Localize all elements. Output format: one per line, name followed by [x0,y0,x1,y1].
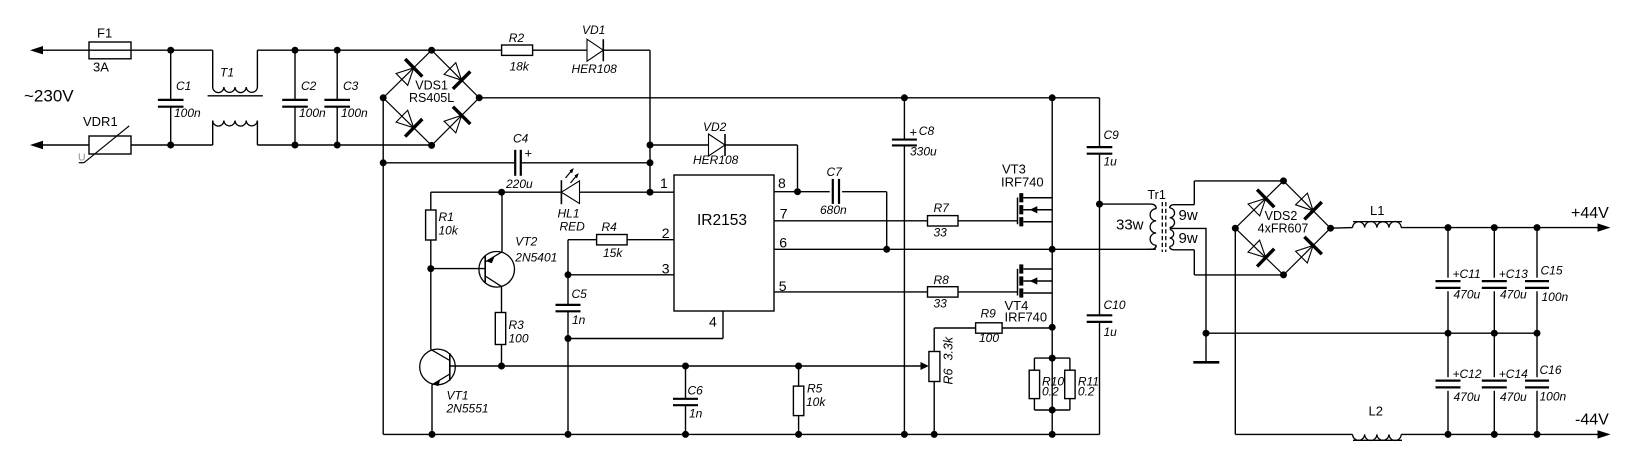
svg-text:100n: 100n [174,106,201,120]
junction C6 top [682,363,689,370]
wire VDS2 to L1 [1331,227,1353,230]
pin 6 label [779,235,787,251]
wire L1 to plus rail [1401,223,1610,231]
junction VT1 emitter ground [429,431,436,438]
resistor R11 [1034,358,1099,410]
transformer Tr1 primary [1100,188,1166,249]
svg-text:C10: C10 [1104,298,1126,312]
wire R8 to VT4 gate [958,291,1018,293]
wire pin 8 stub [774,191,798,193]
junction primary top node [1096,201,1103,208]
choke T1 [208,50,263,145]
svg-text:C1: C1 [176,79,191,93]
wire to VD2 [650,144,709,146]
svg-text:2N5401: 2N5401 [514,251,557,265]
resistor R3 [495,313,529,346]
svg-text:RED: RED [560,220,586,234]
junction C3 bottom [334,142,341,149]
diode VD2 [693,120,739,167]
svg-text:10k: 10k [439,224,459,238]
svg-text:1u: 1u [1104,155,1118,169]
svg-text:R2: R2 [509,31,525,45]
junction VDS1 top vertex [428,47,435,54]
svg-text:R7: R7 [934,201,951,215]
wire F1 to T1 [131,49,213,51]
junction C11 top [1445,224,1452,231]
svg-text:IRF740: IRF740 [1005,310,1048,325]
wire pin 7 [774,220,928,222]
inductor L2 [1353,404,1403,441]
junction pin 3 node [565,271,572,278]
label +44V [1571,205,1609,222]
svg-text:R8: R8 [934,273,950,287]
junction C3 top [334,47,341,54]
capacitor C8 [892,98,937,435]
junction VD2 tap [647,142,654,149]
svg-text:+C13: +C13 [1499,267,1528,281]
svg-text:+: + [910,125,918,140]
wire R4 down to pin 3 [567,240,569,275]
transistor VT3 IRF740 [1001,162,1052,227]
svg-text:100n: 100n [1542,290,1569,304]
svg-text:C5: C5 [572,287,588,301]
wire VT2 collector to R3 [501,287,503,313]
junction pin 8 node [794,188,801,195]
svg-text:33: 33 [934,226,948,240]
capacitor C4 [383,132,650,191]
junction C1 top [167,47,174,54]
capacitor C16 [1525,333,1567,434]
junction VDS1 right vertex [476,94,483,101]
capacitor C3 [324,50,368,145]
svg-text:18k: 18k [510,60,530,74]
svg-text:4xFR607: 4xFR607 [1258,222,1309,236]
capacitor C6 [673,366,703,434]
svg-text:HER108: HER108 [572,62,618,76]
wire R3 to VT1 base rail [501,345,503,367]
svg-text:0.2: 0.2 [1042,385,1059,399]
svg-text:U: U [78,152,86,164]
capacitor C13 [1482,228,1528,334]
svg-text:1: 1 [660,175,668,191]
svg-text:9w: 9w [1179,230,1198,247]
pin 7 label [780,205,788,221]
wire output mid rail [1206,332,1537,334]
svg-text:VD2: VD2 [703,120,727,134]
svg-text:T1: T1 [220,66,234,80]
wire VD2 to pin 8 [725,145,798,192]
svg-text:VT1: VT1 [447,389,469,403]
junction VS at VT3 source [1049,246,1056,253]
LED HL1 [558,168,586,234]
svg-text:C4: C4 [513,132,529,146]
wire T1 to bridge top [257,49,431,51]
junction C12 bottom [1445,431,1452,438]
svg-text:Tr1: Tr1 [1148,188,1166,202]
svg-text:470u: 470u [1500,390,1527,404]
junction C6 bottom [682,431,689,438]
junction shunt bottom [1049,407,1056,414]
svg-text:10k: 10k [806,395,826,409]
svg-text:100n: 100n [299,106,326,120]
svg-text:+44V: +44V [1571,205,1609,222]
wire secondary top to bridge [1194,181,1283,205]
wire plus rail 310V [479,97,1099,99]
svg-text:L2: L2 [1369,404,1383,419]
svg-text:R1: R1 [439,210,454,224]
pin 1 label [660,175,668,191]
potentiometer R6 [929,336,956,384]
resistor R10 [1029,358,1070,410]
junction pin 1 node [647,189,654,196]
svg-text:C8: C8 [919,124,935,138]
wire R9 to R6 [933,328,935,352]
fuse F1 [89,26,131,75]
junction C16 bottom [1534,431,1541,438]
junction R3 bottom [498,363,505,370]
svg-text:1n: 1n [572,313,586,327]
junction C8 ground [901,431,908,438]
capacitor C1 [158,50,201,145]
junction R5 bottom [795,431,802,438]
svg-text:15k: 15k [603,246,623,260]
wire AC line bottom left [30,141,89,149]
svg-text:HER108: HER108 [693,153,739,167]
resistor R7 [928,201,959,240]
wire R7 to VT3 gate [958,220,1018,222]
inductor L1 [1353,203,1403,228]
label ~230V [24,87,74,106]
resistor R8 [928,273,959,311]
wire T1 to bridge bottom [257,144,431,146]
svg-text:470u: 470u [1454,390,1481,404]
wire secondary bottom to bridge [1194,250,1283,275]
wire DC minus vertical [382,98,384,435]
svg-text:RS405L: RS405L [409,91,454,105]
pin 5 label [779,278,787,294]
svg-text:1u: 1u [1104,325,1118,339]
junction VDS1 left vertex [380,94,387,101]
junction shunt ground [1049,431,1056,438]
wire shunt to ground [1051,358,1053,434]
svg-text:3A: 3A [93,60,109,75]
svg-text:680n: 680n [820,203,847,217]
ground [1193,333,1219,362]
junction VDS2 left vertex [1232,225,1239,232]
svg-text:4: 4 [709,314,717,330]
junction C13 top [1491,224,1498,231]
svg-text:VDR1: VDR1 [83,114,118,129]
junction C2 bottom [292,142,299,149]
capacitor C12 [1436,333,1482,434]
wire VT1 base rail [450,362,929,370]
pin 8 label [778,175,786,191]
wire pin 5 [774,291,928,293]
svg-text:1n: 1n [689,407,703,421]
svg-text:470u: 470u [1454,288,1481,302]
svg-text:C7: C7 [827,165,844,179]
svg-text:+C12: +C12 [1453,367,1482,381]
svg-text:F1: F1 [97,26,112,41]
junction VDS2 right vertex [1327,225,1334,232]
wire pin 3 [568,274,674,276]
resistor R1 [426,192,459,240]
junction C7 VS node [883,246,890,253]
wire Vcc to R1 [431,191,562,193]
pin 2 label [662,225,670,241]
svg-text:R5: R5 [807,382,823,396]
svg-text:100n: 100n [341,106,368,120]
wire VT3 drain-source column [1051,98,1053,358]
junction pin 4 node [565,335,572,342]
wire VDS2 minus vertical [1235,228,1352,434]
svg-text:3: 3 [662,260,670,276]
svg-text:3.3k: 3.3k [942,336,956,360]
wire HL1 to pin 1 [580,191,675,193]
wire R6 to ground [933,382,935,435]
svg-text:0.2: 0.2 [1078,385,1095,399]
svg-text:+C11: +C11 [1453,267,1481,281]
svg-text:2: 2 [662,225,670,241]
junction C14 bottom [1491,431,1498,438]
svg-text:9w: 9w [1179,207,1198,224]
svg-text:33: 33 [934,297,948,311]
wire VDR1 to T1 [131,144,213,146]
svg-text:8: 8 [778,175,786,191]
capacitor C15 [1525,228,1569,334]
wire pin 6 VS rail [774,248,1156,250]
wire bridge top to R2 [432,49,502,51]
resistor R5 [793,366,826,434]
svg-text:C6: C6 [688,384,704,398]
junction VT3 drain rail [1049,94,1056,101]
svg-text:C3: C3 [343,79,359,93]
svg-text:C16: C16 [1540,363,1562,377]
op-amp U1 IR2153 driver IC [674,175,774,311]
svg-text:C15: C15 [1541,264,1563,278]
svg-text:100: 100 [979,331,999,345]
junction C13 bottom [1491,330,1498,337]
transformer Tr1 secondary upper 9w [1170,205,1198,228]
capacitor C14 [1482,333,1528,434]
transformer Tr1 core [1162,202,1166,252]
resistor R9 [934,307,1052,346]
svg-text:+: + [525,146,533,161]
junction VDS1 bottom vertex [428,142,435,149]
junction VT2 base node [427,265,434,272]
wire VT1 emitter to ground [431,385,433,435]
pin 4 label [709,314,717,330]
capacitor C5 [556,275,588,435]
svg-text:R4: R4 [602,220,618,234]
diode VD1 [572,23,618,76]
capacitor C10 [1087,204,1126,434]
svg-text:R3: R3 [509,318,525,332]
svg-text:2N5551: 2N5551 [446,402,489,416]
svg-text:IRF740: IRF740 [1001,175,1044,190]
transistor VT1 [420,349,489,415]
wire AC line top left [30,46,89,54]
junction mid rail tap [1203,330,1210,337]
junction C15 top [1534,224,1541,231]
junction VDS2 bottom vertex [1280,271,1287,278]
svg-text:C9: C9 [1104,128,1120,142]
svg-text:470u: 470u [1500,288,1527,302]
junction C1 bottom [167,142,174,149]
svg-text:~230V: ~230V [24,87,74,106]
wire R1 to VT1 collector [430,240,432,349]
transformer Tr1 secondary lower 9w [1170,230,1198,250]
svg-text:IR2153: IR2153 [697,212,747,229]
junction VDS2 top vertex [1280,177,1287,184]
svg-text:+C14: +C14 [1499,367,1528,381]
junction C5 ground [565,431,572,438]
svg-text:R6: R6 [942,368,956,384]
bridge rectifier VDS1 [383,50,479,145]
junction shunt top [1049,355,1056,362]
transistor VT2 [479,235,557,288]
svg-text:220u: 220u [505,177,533,191]
svg-text:L1: L1 [1370,203,1384,218]
junction C4 right [647,159,654,166]
junction C15 bottom [1534,330,1541,337]
wire VT2 base [431,268,485,270]
junction C2 top [292,47,299,54]
capacitor C11 [1436,228,1481,334]
svg-text:VD1: VD1 [582,23,605,37]
junction R6 ground [931,431,938,438]
junction VT4 source R9 node [1049,324,1056,331]
svg-text:100: 100 [509,332,529,346]
capacitor C2 [282,50,326,145]
svg-text:R9: R9 [981,307,997,321]
wire R2 to VD1 [533,49,587,51]
transistor VT4 IRF740 [1005,264,1053,324]
wire pin 4 [568,311,723,339]
pin 3 label [662,260,670,276]
transformer center tap wire [1170,228,1206,333]
resistor R2 [502,31,533,74]
wire C7 to VS [886,192,888,250]
svg-text:330u: 330u [910,145,937,159]
svg-text:C2: C2 [301,79,317,93]
bridge rectifier VDS2 [1235,181,1330,275]
wire VT2 emitter [501,192,503,252]
svg-text:-44V: -44V [1575,412,1609,429]
capacitor C9 [1087,98,1119,204]
svg-text:100n: 100n [1540,390,1567,404]
junction C4 left [380,159,387,166]
svg-text:7: 7 [780,205,788,221]
junction VT2 emitter node [498,189,505,196]
label -44V [1575,412,1609,429]
junction R5 top [795,363,802,370]
capacitor C7 [798,165,887,217]
wire VD1 to Vcc node [603,50,650,192]
svg-text:HL1: HL1 [558,207,580,221]
wire L2 to minus rail [1401,430,1610,438]
resistor R4 [568,220,674,260]
varistor VDR1 [78,114,131,164]
svg-text:6: 6 [779,235,787,251]
svg-text:33w: 33w [1116,217,1144,234]
svg-text:VT2: VT2 [515,235,537,249]
junction C11 bottom [1445,330,1452,337]
junction C8 top [901,94,908,101]
wire ground rail bottom [383,433,1099,435]
